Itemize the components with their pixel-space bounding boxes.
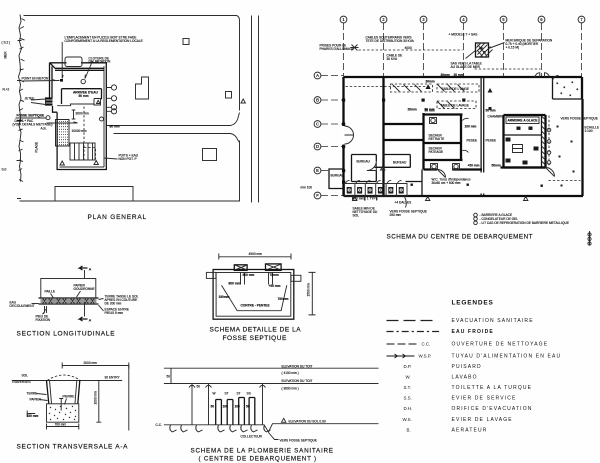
svg-text:+ MODELE T + SAS: + MODELE T + SAS (449, 33, 478, 37)
svg-text:SOL: SOL (353, 214, 360, 218)
svg-text:CONFORMEMENT A LA REGLEMENTATI: CONFORMEMENT A LA REGLEMENTATION LOCALE (65, 39, 143, 43)
svg-text:FOSSE SEPTIQUE: FOSSE SEPTIQUE (223, 335, 288, 342)
svg-text:FIXATION: FIXATION (36, 318, 51, 322)
svg-text:VERS FOSSE SEPTIQUE: VERS FOSSE SEPTIQUE (280, 439, 317, 443)
svg-text:30 KVA: 30 KVA (387, 57, 398, 61)
svg-text:80 mm: 80 mm (110, 125, 120, 129)
svg-text:S.T.: S.T. (404, 385, 412, 390)
svg-text:COLLECTEUR: COLLECTEUR (241, 435, 263, 439)
svg-text:+4 DALLES: +4 DALLES (395, 201, 412, 205)
svg-text:PIERRE: PIERRE (63, 395, 75, 399)
svg-text:BUREAU: BUREAU (393, 161, 407, 165)
svg-text:7: 7 (580, 17, 583, 22)
svg-text:PLAN GENERAL: PLAN GENERAL (88, 214, 147, 221)
svg-text:E: E (316, 168, 319, 173)
svg-text:CHAMBRE: CHAMBRE (488, 115, 504, 119)
svg-text:BUREAU: BUREAU (331, 174, 345, 178)
svg-text:PLAGE: PLAGE (35, 142, 39, 153)
svg-text:750mm: 750mm (278, 297, 289, 301)
svg-text:A: A (316, 73, 319, 78)
svg-text:( 3600 mm ): ( 3600 mm ) (282, 387, 299, 391)
svg-text:1000 mm: 1000 mm (94, 391, 98, 405)
svg-text:B: B (316, 98, 319, 103)
svg-text:50: 50 (197, 385, 201, 389)
svg-text:50: 50 (211, 405, 215, 409)
svg-text:NON POT. P: NON POT. P (119, 157, 137, 161)
svg-text:C.C.: C.C. (156, 423, 162, 427)
svg-text:20mm: 20mm (408, 108, 417, 112)
svg-text:PIEUX 5 mm: PIEUX 5 mm (105, 311, 124, 315)
svg-text:S.0: S.0 (2, 168, 7, 172)
svg-text:10000 mm: 10000 mm (72, 129, 87, 133)
svg-text:EVIER DE SERVICE: EVIER DE SERVICE (452, 396, 517, 402)
svg-text:TRAVERSES: TRAVERSES (12, 380, 31, 384)
svg-text:AU GLACE DE MER: AU GLACE DE MER (451, 65, 481, 69)
svg-text:3000 mm: 3000 mm (76, 112, 90, 116)
svg-text:100: 100 (235, 405, 241, 409)
svg-text:+50 mm: +50 mm (269, 284, 281, 288)
svg-text:1500 mm: 1500 mm (307, 283, 311, 297)
svg-text:50 mm: 50 mm (79, 94, 89, 98)
svg-text:W.S.P.: W.S.P. (419, 354, 432, 359)
svg-text:C.C.: C.C. (422, 342, 431, 347)
svg-text:75mm: 75mm (270, 273, 279, 277)
svg-text:TERRE: TERRE (27, 392, 38, 396)
svg-text:PUISARD: PUISARD (452, 364, 482, 370)
svg-text:SCHEMA DU CENTRE DE DEBARQUEME: SCHEMA DU CENTRE DE DEBARQUEMENT (387, 234, 534, 241)
svg-text:ELEVATION DU TOIT: ELEVATION DU TOIT (282, 364, 313, 368)
svg-text:N.+2: N.+2 (3, 88, 10, 92)
svg-text:800 mm: 800 mm (229, 282, 241, 286)
svg-text:SECTION LONGITUDINALE: SECTION LONGITUDINALE (17, 331, 116, 338)
svg-text:ARMOIRE A GLACE: ARMOIRE A GLACE (508, 119, 538, 123)
svg-text:FOSSE SEPTIQUE: FOSSE SEPTIQUE (17, 114, 45, 118)
svg-text:700 mm: 700 mm (55, 423, 67, 427)
svg-text:1:100: 1:100 (585, 129, 593, 133)
svg-text:50 mm: 50 mm (425, 108, 435, 112)
svg-text:+ 0.15 M): + 0.15 M) (506, 46, 520, 50)
svg-text:TABLE DE L'ANGE: TABLE DE L'ANGE (442, 87, 469, 91)
svg-text:TETE DE DISTRIBUTION 30 KVA: TETE DE DISTRIBUTION 30 KVA (366, 39, 415, 43)
svg-text:( 4100 mm ): ( 4100 mm ) (282, 371, 299, 375)
svg-text:D'ECOULEMENT: D'ECOULEMENT (10, 304, 35, 308)
svg-text:A: A (89, 267, 92, 272)
svg-text:LEGENDES: LEGENDES (452, 300, 494, 307)
svg-text:AERATEUR: AERATEUR (452, 428, 488, 434)
svg-text:PESEE: PESEE (467, 139, 478, 143)
svg-text:150 mm: 150 mm (27, 414, 39, 418)
svg-text:( CENTRE DE DEBARQUEMENT ): ( CENTRE DE DEBARQUEMENT ) (199, 456, 317, 463)
svg-text:ELEVATION DU SOL 0.00: ELEVATION DU SOL 0.00 (289, 419, 326, 423)
svg-text:DE 200 mm: DE 200 mm (105, 302, 122, 306)
svg-text:EAU FROIDE: EAU FROIDE (452, 329, 494, 335)
svg-text:PESEE: PESEE (486, 139, 497, 143)
svg-text:B.: B. (407, 428, 411, 433)
svg-text:6: 6 (540, 17, 543, 22)
svg-text:C: C (316, 122, 319, 127)
svg-text:TOILETTE A LA TURQUE: TOILETTE A LA TURQUE (452, 385, 533, 391)
svg-text:ST: ST (237, 392, 241, 396)
svg-text:CONTRE - PENTES: CONTRE - PENTES (241, 304, 270, 308)
svg-text:W.S.: W.S. (403, 417, 412, 422)
svg-text:3: 3 (422, 17, 425, 22)
svg-text:D.H.: D.H. (404, 406, 413, 411)
svg-text:EVACUATION SANITAIRE: EVACUATION SANITAIRE (452, 318, 534, 324)
svg-text:SCHEMA DETAILLE DE LA: SCHEMA DETAILLE DE LA (210, 327, 302, 334)
svg-text:SCHEMA DE LA PLOMBERIE SANITAI: SCHEMA DE LA PLOMBERIE SANITAIRE (191, 448, 334, 455)
svg-text:30mm: 30mm (441, 73, 450, 77)
svg-text:+50 mm: +50 mm (468, 164, 480, 168)
svg-text:F: F (316, 193, 319, 198)
svg-text:150mm: 150mm (219, 295, 230, 299)
svg-text:50: 50 (167, 375, 171, 379)
svg-text:DELIMITATION: DELIMITATION (89, 60, 112, 64)
svg-text:5: 5 (502, 17, 505, 22)
svg-text:JETEE: JETEE (25, 97, 35, 101)
svg-text:mm 100: mm 100 (301, 186, 313, 190)
svg-text:GOUDRONNE: GOUDRONNE (74, 287, 95, 291)
svg-text:POINT EN BETON: POINT EN BETON (22, 77, 50, 81)
svg-text:250 mm: 250 mm (390, 213, 402, 217)
svg-text:4500 mm: 4500 mm (249, 252, 263, 256)
svg-text:EVIER DE LAVAGE: EVIER DE LAVAGE (452, 417, 513, 423)
svg-text:30mm: 30mm (426, 80, 435, 84)
svg-text:OUVERTURE DE NETTOYAGE: OUVERTURE DE NETTOYAGE (452, 342, 549, 348)
svg-text:W: W (213, 392, 216, 396)
svg-text:PATEAGE: PATEAGE (429, 150, 444, 154)
svg-text:4: 4 (462, 17, 465, 22)
svg-text:TUYAU D'ALIMENTATION EN EAU: TUYAU D'ALIMENTATION EN EAU (452, 354, 562, 360)
svg-text:100: 100 (223, 405, 229, 409)
svg-text:ELEVATION DU TOIT: ELEVATION DU TOIT (282, 379, 313, 383)
svg-text:TABLE DE LAVAGE: TABLE DE LAVAGE (441, 104, 469, 108)
svg-text:D: D (316, 144, 319, 149)
svg-text:30 ENTRY: 30 ENTRY (105, 376, 121, 380)
svg-text:W.: W. (406, 375, 411, 380)
svg-text:PAILLE: PAILLE (45, 290, 56, 294)
svg-text:D.P.: D.P. (404, 364, 412, 369)
svg-text:100 mm: 100 mm (465, 125, 477, 129)
svg-text:ORIFICE D'EVACUATION: ORIFICE D'EVACUATION (452, 406, 533, 412)
svg-text:30x50 cm + 600 mm: 30x50 cm + 600 mm (432, 181, 461, 185)
svg-text:BUREAU: BUREAU (357, 160, 371, 164)
svg-text:20 mm: 20 mm (454, 73, 464, 77)
svg-text:ST: ST (225, 392, 229, 396)
svg-text:50: 50 (246, 405, 250, 409)
svg-text:50mm: 50mm (492, 164, 501, 168)
svg-text:A: A (89, 318, 92, 323)
svg-text:1: 1 (342, 17, 345, 22)
svg-text:500 mm: 500 mm (243, 273, 255, 277)
svg-text:MER: MER (4, 51, 8, 59)
svg-text:A.B.: A.B. (41, 127, 47, 131)
svg-text:VERS FOSSE SEPTIQUE: VERS FOSSE SEPTIQUE (561, 117, 598, 121)
svg-text:400 mm ( 1 TYP ): 400 mm ( 1 TYP ) (353, 197, 378, 201)
svg-text:4000: 4000 (405, 46, 412, 50)
svg-text:PHARES D'ALLUMAGE: PHARES D'ALLUMAGE (320, 47, 354, 51)
svg-text:2000 mm: 2000 mm (84, 361, 98, 365)
svg-text:SECTION TRANSVERSALE A-A: SECTION TRANSVERSALE A-A (17, 444, 129, 451)
svg-text:SS: SS (247, 392, 251, 396)
svg-text:2: 2 (382, 17, 385, 22)
svg-text:SOL: SOL (22, 374, 29, 378)
svg-text:LAVABO: LAVABO (452, 375, 478, 381)
svg-text:- LIT CAS DE REFRIGERATION DE: - LIT CAS DE REFRIGERATION DE BARRIERE M… (480, 221, 569, 225)
svg-text:( S.2 ): ( S.2 ) (2, 41, 11, 45)
svg-text:S.S.: S.S. (404, 396, 412, 401)
svg-text:RETRAITE: RETRAITE (429, 137, 445, 141)
